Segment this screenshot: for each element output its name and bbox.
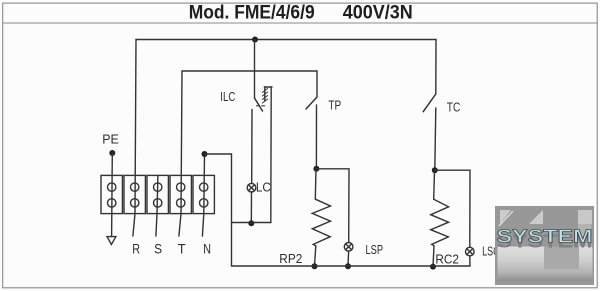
- node RP2 on bus: [312, 263, 318, 269]
- wire PE conductor: [111, 153, 114, 237]
- wire terminal S through line: [156, 175, 159, 213]
- node RC2 on bus: [430, 264, 436, 270]
- wire branch to lamp LSC: [435, 170, 470, 247]
- watermark logo SYSTEM 4: [495, 206, 594, 285]
- wire ILC feed: [254, 40, 256, 99]
- switch TC blade: [423, 94, 436, 112]
- svg-text:T: T: [178, 242, 186, 257]
- switch ILC blade: [255, 98, 263, 111]
- svg-text:ILC: ILC: [220, 90, 235, 104]
- wire resistor RC2 entry: [433, 170, 436, 199]
- wire lamp LSC to bus: [469, 256, 471, 266]
- svg-text:400V/3N: 400V/3N: [343, 3, 413, 24]
- node N corner: [202, 151, 208, 157]
- wire resistor RP2 entry: [314, 169, 317, 199]
- wire resistor RP2 exit: [315, 246, 316, 266]
- regulator element of ILC (hatched): [262, 87, 272, 103]
- wire N to left drop: [205, 154, 232, 266]
- svg-text:TC: TC: [447, 99, 461, 114]
- resistor RP2: [312, 199, 330, 246]
- lamp LC: [247, 183, 256, 192]
- svg-text:N: N: [203, 242, 211, 257]
- wire T bus to TP: [182, 70, 317, 72]
- wire stub below terminal N: [202, 214, 203, 237]
- wire TP output: [315, 105, 317, 169]
- wire neutral riser N: [203, 154, 206, 214]
- wire lamp LSP to bus: [347, 251, 350, 266]
- node TP branch: [313, 166, 319, 172]
- node junction on top bus: [252, 37, 258, 43]
- wire R phase riser: [135, 40, 136, 214]
- svg-text:SYSTEM: SYSTEM: [497, 226, 593, 246]
- node PE top: [109, 150, 115, 156]
- lamp LSP: [344, 243, 353, 252]
- terminal block: [101, 175, 214, 213]
- node LSP on bus: [345, 263, 351, 269]
- node TC branch: [432, 167, 438, 173]
- svg-text:RP2: RP2: [279, 251, 302, 266]
- wire TC output: [435, 108, 436, 170]
- wire lamp LC bottom link: [232, 222, 272, 224]
- lamp LSC: [466, 247, 475, 256]
- resistor RC2: [431, 199, 449, 246]
- wire regulator capillary drop: [270, 87, 272, 223]
- wire T phase riser: [181, 71, 182, 214]
- svg-text:R: R: [132, 242, 140, 257]
- wire resistor RC2 exit: [433, 246, 434, 267]
- svg-text:Mod. FME/4/6/9: Mod. FME/4/6/9: [189, 3, 315, 24]
- svg-text:S: S: [154, 242, 162, 257]
- wire lamp LC to node: [250, 192, 252, 225]
- svg-text:LC: LC: [256, 181, 271, 195]
- wire TP feed: [316, 71, 318, 97]
- wire ILC output: [251, 110, 253, 184]
- wire top bus R phase: [136, 39, 436, 41]
- switch TP blade: [306, 97, 317, 109]
- svg-text:TP: TP: [328, 98, 341, 113]
- svg-text:PE: PE: [102, 132, 119, 147]
- title text Mod. FME/4/6/9 400V/3N: [189, 3, 413, 24]
- dashed mechanical link ILC: [257, 105, 267, 107]
- labels for switches lamps resistors and terminals: [102, 90, 499, 267]
- node lamp LC bottom: [248, 220, 254, 226]
- wire stub below terminal T: [179, 214, 181, 237]
- wire TC feed from top bus: [435, 40, 437, 95]
- wire neutral bottom bus: [232, 265, 471, 267]
- svg-text:LSP: LSP: [366, 242, 384, 257]
- wire branch to lamp LSP: [316, 169, 349, 243]
- svg-text:RC2: RC2: [435, 251, 459, 266]
- ground earth arrow: [107, 237, 116, 245]
- wire stub below terminal R: [133, 214, 135, 237]
- wire stub below terminal S: [156, 214, 157, 237]
